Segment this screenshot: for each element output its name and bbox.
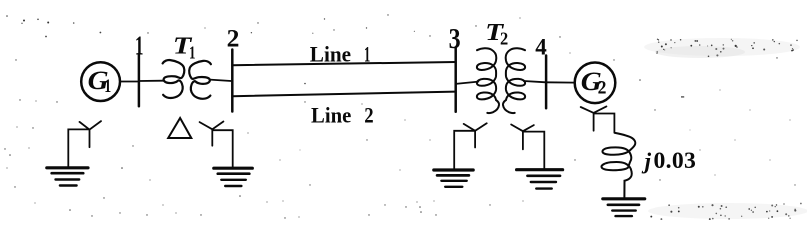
svg-text:0.03: 0.03 [654, 148, 697, 174]
svg-text:3: 3 [449, 24, 461, 55]
svg-text:2: 2 [598, 78, 607, 99]
svg-text:2: 2 [364, 104, 373, 128]
svg-text:1: 1 [189, 42, 196, 62]
svg-text:Line: Line [310, 43, 352, 67]
svg-text:2: 2 [500, 29, 508, 49]
svg-text:j: j [641, 148, 652, 173]
svg-text:Line: Line [311, 104, 352, 128]
svg-text:2: 2 [227, 23, 240, 52]
svg-text:1: 1 [135, 31, 144, 61]
svg-text:1: 1 [364, 43, 370, 67]
svg-text:1: 1 [104, 76, 111, 97]
svg-text:4: 4 [535, 34, 547, 59]
